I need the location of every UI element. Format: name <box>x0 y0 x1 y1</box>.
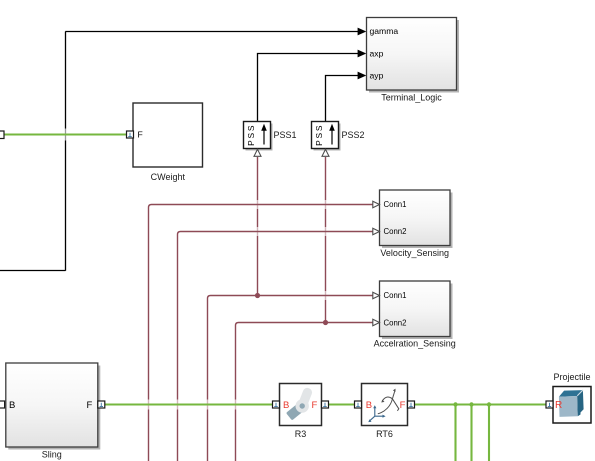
block Accelration_Sensing <box>373 281 456 349</box>
wire maroon PSS2 down <box>324 157 327 323</box>
block Velocity_Sensing <box>373 190 453 258</box>
svg-text:PSS1: PSS1 <box>274 130 297 140</box>
svg-text:Conn2: Conn2 <box>384 227 407 236</box>
svg-text:Accelration_Sensing: Accelration_Sensing <box>374 339 456 349</box>
svg-text:R3: R3 <box>295 429 307 439</box>
wire black PSS1 to axp <box>258 50 367 122</box>
block RT6 rigid transform <box>355 384 415 439</box>
wire green branch 3 <box>487 402 491 461</box>
svg-text:R: R <box>555 400 562 411</box>
junction dot maroon PSS2 <box>323 320 328 325</box>
wire maroon W3 to Conn1 Accel <box>206 296 373 461</box>
svg-text:B: B <box>9 400 15 411</box>
block PSS2 <box>312 122 365 157</box>
svg-text:B: B <box>366 400 372 411</box>
svg-text:B: B <box>283 400 289 411</box>
block CWeight <box>127 103 203 182</box>
port square source left edge <box>0 131 4 139</box>
svg-text:PSS2: PSS2 <box>342 130 365 140</box>
wire maroon W4 to Conn2 Accel <box>234 323 373 461</box>
svg-text:F: F <box>400 400 406 411</box>
wire maroon PSS1 down <box>256 157 259 296</box>
wire green RT6 to Projectile <box>415 403 547 405</box>
wire green branch 1 <box>453 402 457 461</box>
svg-text:Sling: Sling <box>42 450 62 460</box>
svg-text:ayp: ayp <box>370 71 384 81</box>
svg-text:PSS: PSS <box>246 124 256 146</box>
block Projectile <box>546 372 591 423</box>
wire green Sling to R3 <box>105 403 273 405</box>
svg-text:F: F <box>138 130 143 140</box>
wire green to CWeight <box>0 133 127 135</box>
svg-text:axp: axp <box>370 49 384 59</box>
wire maroon W1 to Conn1 Velocity <box>147 205 373 461</box>
wire green R3 to RT6 <box>329 403 355 405</box>
block Terminal_Logic <box>367 18 460 103</box>
block PSS1 <box>244 122 297 157</box>
wire black to gamma <box>0 28 366 271</box>
svg-text:F: F <box>87 400 93 411</box>
svg-text:RT6: RT6 <box>376 429 393 439</box>
svg-text:Projectile: Projectile <box>553 372 590 382</box>
svg-text:Conn1: Conn1 <box>384 200 407 209</box>
svg-text:PSS: PSS <box>314 124 324 146</box>
svg-text:Terminal_Logic: Terminal_Logic <box>381 93 442 103</box>
block Sling <box>0 363 105 460</box>
svg-text:Conn2: Conn2 <box>384 319 407 328</box>
wire black PSS2 to ayp <box>326 72 367 122</box>
svg-text:CWeight: CWeight <box>151 172 186 182</box>
junction dot maroon PSS1 <box>255 293 260 298</box>
svg-text:F: F <box>312 400 318 411</box>
svg-text:gamma: gamma <box>370 26 399 36</box>
wire maroon W2 to Conn2 Velocity <box>176 232 373 461</box>
block R3 revolute joint <box>273 384 329 439</box>
wire green branch 2 <box>469 402 473 461</box>
svg-text:Velocity_Sensing: Velocity_Sensing <box>380 248 449 258</box>
svg-text:Conn1: Conn1 <box>384 291 407 300</box>
